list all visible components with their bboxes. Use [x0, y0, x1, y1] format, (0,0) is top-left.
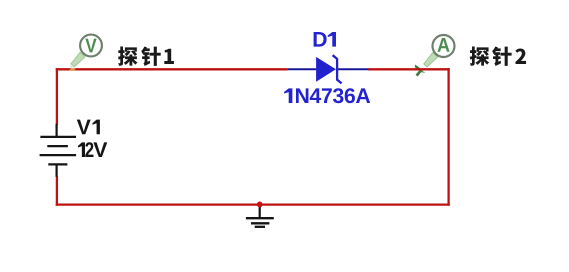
label 12V [78, 142, 107, 157]
probe 1 (voltage probe) [69, 35, 102, 71]
label 探针2 [470, 46, 526, 66]
junction dot at ground node [257, 202, 263, 208]
label 探针1 [118, 46, 174, 66]
label V1 [77, 120, 100, 135]
label D1 [314, 32, 336, 47]
wire left vertical lower (V1 bottom pin to bottom corner) [56, 176, 58, 205]
wire top-left segment (V1+ to D1 anode) [56, 68, 288, 70]
wire top-right segment (D1 cathode to right corner) [368, 68, 450, 70]
probe 2 (current probe) [424, 35, 455, 67]
ground [246, 205, 274, 227]
zener diode D1 [288, 55, 368, 83]
wire bottom segment (ground net) [56, 203, 450, 205]
probe 2 arrow tip (under wire) [415, 65, 426, 76]
label 1N4736A [284, 88, 370, 103]
battery V1 [40, 124, 77, 177]
wire right vertical [447, 68, 449, 206]
wire left vertical upper (top corner to V1 top pin) [56, 68, 58, 125]
